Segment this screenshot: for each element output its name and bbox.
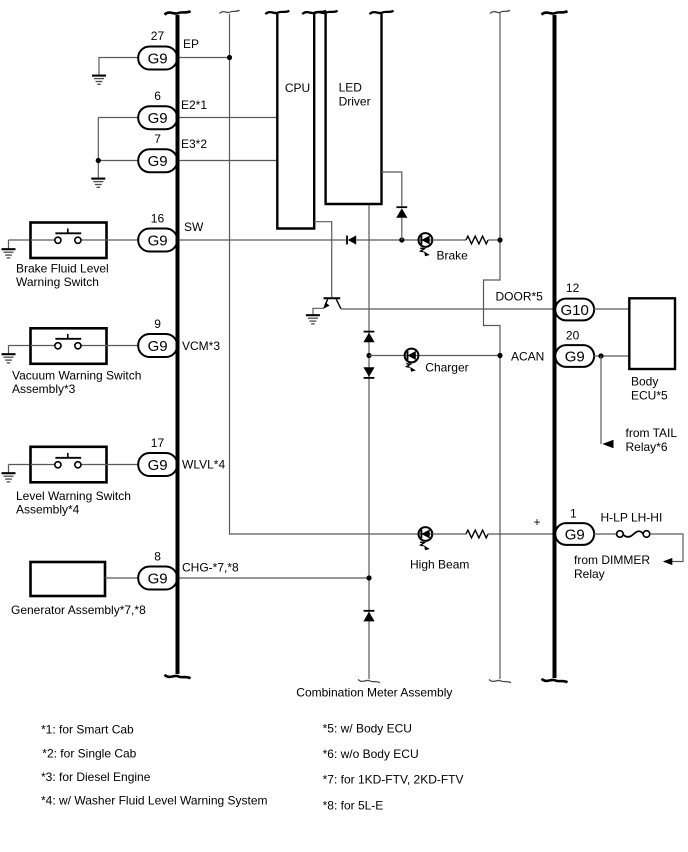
svg-text:Assembly*4: Assembly*4 [16, 503, 80, 517]
pin 8 of G9 [154, 550, 161, 564]
wire: SW ground lead and riser [9, 240, 31, 249]
svg-text:G9: G9 [148, 570, 168, 587]
wire: switch internal leads SW [31, 239, 139, 241]
wire: CPU output to transistor base [314, 222, 332, 298]
net label SW [184, 220, 204, 234]
wire: charger LED line [369, 355, 500, 357]
switch contacts (level warning) [55, 453, 81, 468]
wire: fusible link to DIMMER relay corner [650, 534, 683, 562]
footnote *7 [323, 773, 464, 787]
pin 7 of G9 [154, 132, 161, 146]
ground at EP lead [92, 76, 106, 85]
svg-text:17: 17 [151, 436, 165, 450]
switch contacts (vacuum) [55, 334, 81, 349]
label Brake [437, 249, 469, 263]
resistor on high beam line [466, 530, 488, 538]
label Combination Meter Assembly [296, 686, 452, 700]
svg-text:Brake Fluid Level: Brake Fluid Level [16, 262, 109, 276]
footnote *5 [323, 722, 412, 736]
wire: shared ground riser for E2/E3 [97, 118, 99, 179]
IC CPU box (open top) [265, 11, 326, 229]
svg-text:DOOR*5: DOOR*5 [496, 290, 544, 304]
wire: transistor emitter to ground [313, 308, 324, 314]
svg-text:Relay*6: Relay*6 [626, 440, 668, 454]
LED indicator Brake [419, 233, 433, 256]
connector G9 pin SW [138, 229, 177, 252]
wire: ACAN connector to Body ECU [593, 355, 629, 357]
wire: WLVL ground lead and riser [9, 465, 31, 473]
ground at brake fluid switch [2, 249, 16, 258]
wire: generator to connector [105, 577, 138, 579]
bus: combination meter right vertical (thick) [542, 11, 568, 682]
net label EP [183, 37, 199, 51]
svg-text:E3*2: E3*2 [181, 137, 207, 151]
svg-text:*8: for 5L-E: *8: for 5L-E [323, 799, 384, 813]
svg-text:G9: G9 [148, 50, 168, 67]
label High Beam [410, 558, 469, 572]
node: junction EP / vertical net [227, 55, 232, 60]
wire: high beam LED to resistor [432, 533, 466, 535]
svg-text:G10: G10 [561, 302, 589, 319]
svg-text:from DIMMER: from DIMMER [574, 553, 650, 567]
switch box: Brake Fluid Level Warning Switch [31, 223, 107, 259]
net label VCM*3 [182, 339, 220, 353]
arrow from TAIL Relay [602, 440, 613, 448]
svg-text:7: 7 [154, 132, 161, 146]
connector G9 pin EP [138, 47, 177, 70]
svg-text:G9: G9 [148, 110, 168, 127]
pin 17 of G9 [151, 436, 165, 450]
LED indicator Charger [405, 349, 419, 372]
label Level Warning Switch Assembly*4 [16, 489, 131, 517]
footnote *2 [42, 747, 136, 761]
diode on LED-driver branch (pointing up) [396, 207, 407, 218]
footnote *6 [323, 747, 419, 761]
svg-text:Combination Meter Assembly: Combination Meter Assembly [296, 686, 452, 700]
svg-text:High Beam: High Beam [410, 558, 469, 572]
LED indicator High Beam [419, 527, 433, 550]
net label DOOR*5 [496, 290, 544, 304]
connector G9 pin ACAN [555, 345, 594, 367]
wire: vertical net x=500 with jog around DOOR*5 label, top break to bottom break [484, 10, 512, 683]
transistor Q (door signal) [324, 298, 341, 308]
wire: G10 to Body ECU [593, 308, 629, 310]
label Charger [425, 361, 468, 375]
svg-text:+: + [534, 515, 541, 529]
svg-text:VCM*3: VCM*3 [182, 339, 220, 353]
wire: EP from bus to net junction [180, 57, 230, 59]
wire: vertical net from LED Driver bottom through charger diodes to bottom break (x=369) [358, 204, 380, 683]
wire: DOOR line from transistor collector to right bus [341, 308, 553, 310]
svg-text:EP: EP [183, 37, 199, 51]
wire: H-LP connector to fusible link [593, 533, 616, 535]
diode below charger junction (pointing down) [363, 367, 374, 378]
label Generator Assembly*7,*8 [11, 603, 146, 617]
svg-text:CHG-*7,*8: CHG-*7,*8 [182, 561, 239, 575]
ground at vacuum switch [2, 354, 16, 363]
connector G9 pin CHG [138, 567, 177, 590]
connector G9 pin E3 [138, 149, 177, 172]
svg-text:Brake: Brake [437, 249, 469, 263]
ECU box: Body ECU [629, 298, 675, 369]
svg-text:*5: w/ Body ECU: *5: w/ Body ECU [323, 722, 412, 736]
label Vacuum Warning Switch Assembly*3 [12, 369, 141, 397]
pin 6 of G9 [154, 89, 161, 103]
svg-text:*2: for Single Cab: *2: for Single Cab [42, 747, 136, 761]
svg-text:G9: G9 [148, 338, 168, 355]
svg-text:*1: for Smart Cab: *1: for Smart Cab [41, 723, 134, 737]
svg-text:CPU: CPU [285, 81, 310, 95]
ground at level warning switch [2, 473, 16, 482]
pin 16 of G9 [151, 212, 165, 226]
svg-text:LED: LED [339, 81, 363, 95]
svg-text:Generator Assembly*7,*8: Generator Assembly*7,*8 [11, 603, 146, 617]
pin 20 of G9 (right) [566, 329, 580, 343]
footnote *1 [41, 723, 134, 737]
wire: switch internal leads VCM [31, 345, 139, 347]
wire: CHG from bus to x=369 net [180, 577, 370, 579]
svg-text:G9: G9 [148, 153, 168, 170]
svg-text:Driver: Driver [339, 95, 371, 109]
bus: combination meter left vertical (thick) [165, 11, 191, 678]
switch box: Vacuum Warning Switch [31, 328, 107, 364]
wire: SW diode to brake LED [356, 239, 418, 241]
wire: VCM ground lead and riser [9, 346, 31, 354]
connector G10 pin DOOR [555, 299, 594, 321]
connector G9 pin VCM [138, 334, 177, 357]
net label H-LP LH-HI [601, 511, 663, 525]
svg-text:9: 9 [154, 317, 161, 331]
svg-text:G9: G9 [148, 232, 168, 249]
svg-text:20: 20 [566, 329, 580, 343]
svg-text:from TAIL: from TAIL [626, 426, 678, 440]
svg-text:Warning Switch: Warning Switch [16, 275, 99, 289]
wire: high beam resistor to right bus [488, 533, 553, 535]
switch contacts (brake fluid level) [55, 228, 81, 243]
wire: E3 lead from ground riser to connector [98, 160, 138, 162]
switch box: Level Warning Switch [31, 447, 107, 483]
net label ACAN [511, 350, 544, 364]
wire: E2 lead from ground riser to connector [98, 117, 138, 119]
svg-text:ECU*5: ECU*5 [631, 389, 668, 403]
svg-text:*6: w/o Body ECU: *6: w/o Body ECU [323, 747, 419, 761]
footnote *3 [41, 770, 151, 784]
svg-text:Level Warning Switch: Level Warning Switch [16, 489, 131, 503]
pin 27 of G9 [151, 29, 165, 43]
ground at E2/E3 riser [91, 179, 105, 188]
node: junction SW line / LED-driver diode branch [399, 237, 404, 242]
svg-text:ACAN: ACAN [511, 350, 544, 364]
wire: SW from bus to diode [180, 239, 348, 241]
wire: vertical net from EP junction down to High Beam branch (x=229.5) [220, 10, 419, 534]
pin 9 of G9 [154, 317, 161, 331]
resistor on brake line [466, 236, 488, 244]
svg-text:G9: G9 [565, 348, 585, 365]
wire: diode branch down to SW line [401, 218, 403, 240]
net label WLVL*4 [182, 458, 225, 472]
wire: brake LED to resistor [432, 239, 466, 241]
svg-text:E2*1: E2*1 [181, 98, 207, 112]
wire: E2 from bus to CPU [180, 117, 279, 119]
wire: E3 from bus to CPU [180, 160, 279, 162]
node: junction ACAN / TAIL relay branch [598, 353, 603, 358]
arrow from DIMMER Relay [663, 558, 673, 565]
label + polarity [534, 515, 541, 529]
net label E2*1 [181, 98, 207, 112]
svg-text:SW: SW [184, 220, 204, 234]
label Body ECU*5 [631, 375, 668, 403]
net label CHG-*7,*8 [182, 561, 239, 575]
svg-text:WLVL*4: WLVL*4 [182, 458, 225, 472]
svg-text:*3: for Diesel Engine: *3: for Diesel Engine [41, 770, 151, 784]
label from TAIL Relay*6 [626, 426, 678, 454]
connector G9 pin E2 [138, 106, 177, 129]
wire: switch internal leads WLVL [31, 464, 139, 466]
svg-text:12: 12 [566, 281, 580, 295]
footnote *8 [323, 799, 384, 813]
svg-text:Body: Body [631, 375, 658, 389]
diode above charger junction (pointing up) [363, 332, 374, 343]
svg-text:Relay: Relay [574, 567, 605, 581]
wire: EP ground lead and riser [99, 58, 138, 76]
wire: TAIL relay branch riser [600, 356, 602, 444]
label from DIMMER Relay [574, 553, 650, 581]
node: junction brake line / x=500 net [497, 237, 502, 242]
ground at transistor emitter [306, 315, 320, 324]
svg-text:G9: G9 [148, 457, 168, 474]
component box: Generator Assembly [31, 562, 106, 596]
pin 12 of G10 [566, 281, 580, 295]
IC LED Driver box (open top) [314, 11, 394, 204]
node: junction charger line / x=500 net [497, 353, 502, 358]
svg-text:H-LP LH-HI: H-LP LH-HI [601, 511, 663, 525]
wire: LED Driver output to diode branch [382, 172, 402, 207]
pin 1 of G9 (H-LP) [570, 507, 577, 521]
svg-text:Charger: Charger [425, 361, 468, 375]
label LED Driver [339, 81, 371, 109]
svg-text:27: 27 [151, 29, 165, 43]
svg-text:G9: G9 [565, 526, 585, 543]
svg-text:*7: for 1KD-FTV, 2KD-FTV: *7: for 1KD-FTV, 2KD-FTV [323, 773, 464, 787]
label CPU [285, 81, 310, 95]
node: junction CHG / x=369 net [366, 575, 371, 580]
svg-text:8: 8 [154, 550, 161, 564]
svg-text:Assembly*3: Assembly*3 [12, 382, 76, 396]
diode D on SW line (pointing left) [347, 235, 356, 244]
svg-text:16: 16 [151, 212, 165, 226]
footnote *4 [41, 794, 268, 808]
connector G9 pin H-LP [555, 523, 594, 545]
connector G9 pin WLVL [138, 453, 177, 476]
node: junction E3 / ground riser [96, 158, 101, 163]
label Brake Fluid Level Warning Switch [16, 262, 109, 290]
svg-text:*4: w/ Washer Fluid Level Warn: *4: w/ Washer Fluid Level Warning System [41, 794, 268, 808]
wire: brake resistor to x=500 net [488, 239, 500, 241]
svg-text:6: 6 [154, 89, 161, 103]
svg-text:1: 1 [570, 507, 577, 521]
svg-text:Vacuum Warning Switch: Vacuum Warning Switch [12, 369, 141, 383]
net label E3*2 [181, 137, 207, 151]
node: junction charger line / x=369 net [366, 353, 371, 358]
fusible link (circle-wave-circle) [617, 531, 650, 538]
diode on x=369 net below CHG junction (pointing up) [363, 611, 374, 622]
